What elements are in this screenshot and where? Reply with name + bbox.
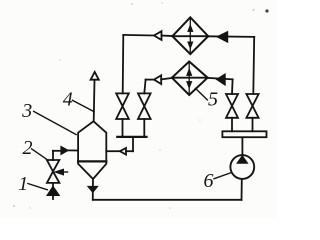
svg-text:6: 6 [204, 170, 214, 192]
svg-text:1: 1 [18, 173, 28, 195]
svg-text:3: 3 [21, 100, 32, 122]
svg-text:4: 4 [63, 88, 73, 110]
svg-text:2: 2 [23, 137, 33, 159]
svg-text:5: 5 [208, 89, 218, 111]
